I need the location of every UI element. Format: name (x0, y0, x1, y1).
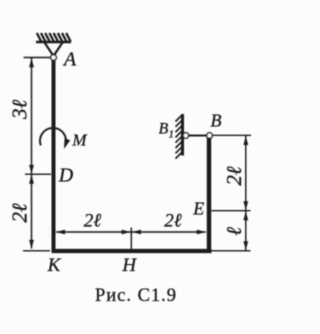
svg-text:Рис. С1.9: Рис. С1.9 (95, 286, 177, 306)
hinge circle at B (207, 133, 213, 139)
bottom dimension arrows (56, 230, 65, 235)
roller support at B: wall line (181, 114, 184, 156)
hinge circle at wall B1 (183, 133, 189, 139)
left dimension arrows (29, 58, 34, 67)
pin support at A: ceiling line (36, 41, 71, 44)
node H tick (130, 228, 132, 250)
svg-text:D: D (58, 165, 74, 187)
svg-text:B: B (211, 111, 222, 131)
svg-text:2ℓ: 2ℓ (84, 211, 102, 232)
pin support at A: hinge circle (51, 55, 57, 61)
wire: right vertical bar B-E (207, 136, 211, 251)
svg-text:2ℓ: 2ℓ (8, 203, 32, 223)
svg-text:E: E (192, 199, 204, 219)
left dimension: tick at A level (24, 57, 52, 59)
svg-text:ℓ: ℓ (222, 227, 246, 236)
right dimension arrows (243, 136, 248, 145)
pin support at A: hatching (37, 33, 71, 42)
right dimension line (245, 136, 247, 251)
svg-text:H: H (121, 255, 137, 276)
svg-text:2ℓ: 2ℓ (164, 211, 182, 232)
node D tick (25, 173, 51, 175)
moment M arc (40, 128, 66, 145)
svg-text:K: K (47, 255, 62, 276)
svg-text:3ℓ: 3ℓ (8, 100, 32, 121)
right dimension: tick at bottom level (212, 250, 251, 252)
node E tick (212, 210, 251, 212)
wire: bottom horizontal bar K-H-E (52, 249, 212, 253)
svg-text:A: A (62, 49, 77, 71)
right dimension: tick at B level (213, 134, 251, 136)
roller support at B: wall hatching (176, 115, 183, 159)
wire: left vertical bar A-D-K (52, 58, 56, 252)
pin support at A: triangle (45, 43, 63, 57)
link rod B1-B (185, 135, 210, 137)
left dimension line (31, 58, 33, 249)
svg-text:B: B (159, 121, 169, 138)
left dimension: tick at K level (23, 250, 50, 252)
svg-text:1: 1 (169, 129, 175, 141)
moment M arrowhead (64, 138, 70, 149)
svg-text:2ℓ: 2ℓ (222, 166, 246, 186)
bottom dimension line (56, 231, 206, 233)
svg-text:M: M (71, 131, 87, 150)
